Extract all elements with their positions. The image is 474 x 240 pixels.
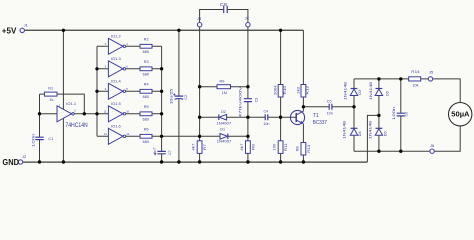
svg-text:R6: R6 — [144, 128, 149, 132]
resistor R14 10k — [409, 70, 421, 87]
wire GND rail — [23, 161, 368, 163]
svg-text:74HC14N: 74HC14N — [65, 122, 87, 129]
svg-text:R4: R4 — [144, 83, 149, 87]
resistor R9 1M — [217, 80, 231, 95]
wire bridge bottom rail to J6 — [354, 126, 460, 151]
wire bridge gnd link — [367, 115, 379, 162]
svg-text:IO1.4: IO1.4 — [111, 79, 121, 83]
svg-text:R7: R7 — [202, 143, 207, 150]
inverter IO1.4 — [105, 79, 129, 99]
diode D6 1N4148 — [368, 121, 388, 139]
resistor R10 vertical 100k — [273, 85, 287, 98]
connector J1 — [20, 24, 28, 33]
svg-text:470n/400V: 470n/400V — [238, 86, 243, 118]
diode D4 1N4148 — [341, 121, 362, 139]
svg-text:100k: 100k — [273, 85, 278, 95]
inverter IO1.3 — [105, 57, 129, 77]
resistor R5 680 — [140, 105, 152, 121]
svg-text:C6: C6 — [403, 111, 408, 117]
svg-text:10n: 10n — [327, 112, 333, 116]
svg-text:D5: D5 — [385, 90, 390, 96]
wire R12 column — [302, 30, 304, 107]
wire resistor right leads — [152, 46, 162, 136]
svg-text:R13: R13 — [306, 144, 311, 153]
svg-text:1M: 1M — [222, 91, 227, 95]
svg-text:C7: C7 — [167, 149, 172, 155]
svg-text:D6: D6 — [383, 131, 388, 137]
svg-text:J5: J5 — [429, 71, 433, 75]
svg-text:J4: J4 — [245, 16, 249, 20]
resistor R4 680 — [140, 83, 152, 99]
wire row136 to D1 section — [162, 135, 248, 137]
svg-text:J2: J2 — [22, 155, 26, 159]
svg-text:1N4007: 1N4007 — [216, 121, 231, 125]
capacitor C6 100n — [391, 107, 408, 121]
svg-text:IO1.2: IO1.2 — [111, 34, 121, 38]
svg-text:GND: GND — [2, 157, 19, 167]
capacitor C8 top between J3 J4 — [220, 2, 228, 13]
svg-text:C8: C8 — [220, 2, 228, 7]
connector J6 — [430, 144, 434, 153]
svg-text:+5V: +5V — [2, 26, 17, 36]
svg-text:68: 68 — [294, 145, 299, 151]
diode D5 1N4148 — [368, 82, 390, 100]
wire collector lead — [302, 107, 304, 111]
wire bridge right column — [378, 79, 380, 151]
wire vcc drop column x63 — [62, 30, 64, 162]
wire J3 column — [199, 27, 201, 162]
connector J3 — [197, 17, 202, 27]
wire input stubs — [97, 46, 108, 136]
connector J5 — [428, 71, 433, 82]
svg-text:D3: D3 — [357, 89, 362, 95]
wire input bus x97 — [96, 46, 98, 136]
svg-text:R8: R8 — [250, 143, 255, 150]
inverter IO1.5 — [104, 102, 130, 122]
resistor R12 vertical 2k2 — [296, 85, 310, 98]
svg-text:680: 680 — [143, 95, 149, 99]
wire C2 column — [178, 30, 180, 162]
svg-text:J6: J6 — [430, 144, 434, 148]
svg-text:R5: R5 — [144, 105, 149, 109]
wire IO1.1 input — [40, 113, 58, 115]
transistor T1 BC337 — [290, 110, 327, 126]
svg-text:10u/25: 10u/25 — [169, 88, 174, 104]
inverter IO1.1 74HC14N — [57, 102, 88, 129]
svg-text:R10: R10 — [282, 85, 287, 94]
svg-text:D2: D2 — [221, 110, 226, 114]
resistor R3 680 — [140, 60, 152, 76]
wire C8 top cap leads — [200, 10, 248, 23]
wire R11 column — [280, 117, 282, 162]
resistor R2 680 — [140, 38, 152, 54]
svg-text:4n7: 4n7 — [152, 147, 157, 154]
svg-text:680: 680 — [143, 118, 149, 122]
wire D2 row — [200, 116, 296, 118]
svg-text:IO1.1: IO1.1 — [66, 102, 76, 106]
svg-text:10k: 10k — [412, 84, 419, 88]
resistor R1 1k — [45, 86, 58, 102]
diode D2 1N4007 — [216, 110, 231, 125]
capacitor C4 10n — [263, 109, 269, 125]
svg-text:D1: D1 — [220, 127, 225, 131]
svg-text:1N4148: 1N4148 — [343, 82, 348, 100]
svg-text:50µA: 50µA — [451, 111, 469, 118]
capacitor C7 on summing bus — [152, 147, 172, 155]
wire R9 leads — [200, 86, 248, 88]
svg-text:C5: C5 — [327, 100, 332, 104]
svg-text:R12: R12 — [305, 85, 310, 94]
wire emitter lead to R13 — [302, 124, 304, 162]
wire C5 row — [303, 106, 354, 108]
svg-text:R14: R14 — [411, 70, 419, 74]
resistor R7 vertical — [190, 141, 207, 154]
svg-text:680: 680 — [143, 73, 149, 77]
wire bridge left column — [353, 79, 355, 151]
svg-text:10n: 10n — [263, 122, 269, 126]
svg-text:C2: C2 — [183, 94, 188, 100]
wire J4 column — [247, 27, 249, 162]
svg-text:R11: R11 — [283, 142, 288, 151]
svg-text:100n: 100n — [31, 133, 36, 147]
svg-text:IO1.3: IO1.3 — [111, 57, 121, 61]
resistor R8 vertical — [239, 141, 256, 154]
svg-text:680: 680 — [143, 140, 149, 144]
wire R1 feedback loop — [40, 94, 85, 114]
svg-text:R3: R3 — [144, 60, 149, 64]
svg-text:1N4148: 1N4148 — [341, 121, 346, 139]
resistor R11 vertical — [272, 141, 289, 154]
svg-text:1k: 1k — [49, 98, 53, 102]
connector J4 — [245, 16, 250, 27]
wire +5V rail — [25, 29, 304, 31]
svg-text:100n: 100n — [391, 107, 396, 121]
wire gate output leads — [126, 46, 140, 136]
capacitor C2 10u/25 electrolytic — [169, 88, 188, 104]
svg-text:R2: R2 — [144, 38, 149, 42]
svg-text:J1: J1 — [24, 24, 28, 28]
svg-text:C1: C1 — [48, 137, 53, 141]
inverter IO1.6 — [104, 124, 130, 144]
capacitor C5 10n — [327, 100, 333, 116]
svg-text:C3: C3 — [254, 97, 259, 103]
svg-text:IO1.6: IO1.6 — [111, 124, 121, 128]
inverter IO1.2 — [105, 34, 129, 54]
svg-text:1N4007: 1N4007 — [217, 140, 232, 144]
svg-text:R9: R9 — [220, 80, 225, 84]
svg-text:100: 100 — [272, 143, 277, 151]
diode D1 1N4007 — [217, 127, 232, 143]
wire summing bus x161.6 — [161, 46, 163, 162]
wire C6 column — [400, 79, 402, 151]
capacitor C1 100n — [31, 133, 54, 147]
svg-text:BC337: BC337 — [313, 120, 327, 126]
resistor R13 vertical — [294, 143, 311, 156]
svg-text:2k2: 2k2 — [296, 86, 301, 94]
wire bridge top rail — [354, 78, 428, 80]
svg-text:J3: J3 — [197, 17, 201, 21]
capacitor C3 470n/400V — [238, 86, 259, 118]
svg-text:C4: C4 — [264, 109, 269, 113]
svg-text:IO1.5: IO1.5 — [111, 102, 121, 106]
meter M1 50uA — [449, 103, 472, 126]
svg-text:4k7: 4k7 — [239, 143, 244, 151]
diode D3 1N4148 — [343, 82, 363, 100]
svg-text:R1: R1 — [48, 86, 53, 90]
svg-text:680: 680 — [143, 50, 149, 54]
resistor R6 680 — [140, 128, 152, 144]
wire oscillator input column x39.5 — [39, 94, 41, 162]
svg-text:1N4148: 1N4148 — [368, 121, 373, 139]
connector J2 — [18, 155, 26, 164]
wire J5 to meter top — [433, 79, 461, 103]
svg-text:1N4148: 1N4148 — [368, 82, 373, 100]
svg-text:4k7: 4k7 — [190, 143, 195, 151]
wire IO1.1 output row to IO1.5 — [74, 113, 108, 115]
wire R10 column — [280, 30, 282, 117]
svg-text:D4: D4 — [357, 131, 362, 137]
svg-text:T1: T1 — [313, 113, 319, 119]
